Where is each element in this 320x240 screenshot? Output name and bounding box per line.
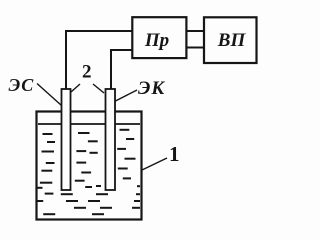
label 1 pointer — [142, 158, 167, 170]
wire from electrode EK up and right to Pr box — [111, 50, 133, 89]
label EK pointer — [116, 90, 138, 101]
electrode ES (left) — [62, 89, 71, 190]
svg-text:1: 1 — [169, 142, 180, 166]
electrode EK (right) — [106, 89, 116, 190]
label 2 pointer left — [71, 84, 80, 92]
label 2 pointer right — [93, 84, 104, 93]
svg-text:2: 2 — [82, 62, 92, 83]
box VP — [204, 17, 257, 63]
wire Pr to VP lower — [186, 47, 204, 49]
box Pr — [132, 17, 186, 58]
svg-text:Пр: Пр — [144, 30, 169, 51]
liquid dashes — [37, 130, 140, 214]
wire from electrode ES up and right to Pr box — [66, 31, 133, 90]
beaker 1 — [37, 112, 142, 220]
svg-text:ЭС: ЭС — [9, 75, 35, 95]
liquid surface line — [38, 123, 140, 125]
svg-text:ЭК: ЭК — [138, 78, 165, 99]
svg-text:ВП: ВП — [217, 30, 247, 51]
label ES pointer — [37, 84, 62, 106]
wire Pr to VP upper — [186, 30, 204, 32]
